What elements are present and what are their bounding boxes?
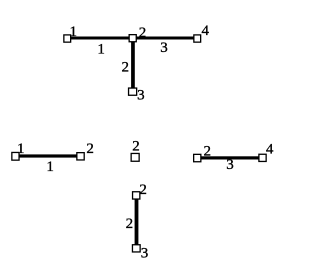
svg-text:2: 2 — [121, 60, 129, 76]
svg-text:2: 2 — [132, 138, 140, 154]
svg-text:3: 3 — [141, 245, 149, 261]
svg-text:4: 4 — [266, 142, 274, 158]
svg-text:1: 1 — [17, 141, 25, 157]
svg-text:1: 1 — [46, 159, 54, 175]
svg-text:3: 3 — [137, 87, 145, 103]
svg-text:2: 2 — [139, 25, 147, 41]
svg-text:2: 2 — [203, 143, 211, 159]
svg-text:2: 2 — [86, 141, 94, 157]
svg-text:2: 2 — [139, 182, 147, 198]
svg-text:3: 3 — [160, 40, 168, 56]
svg-text:1: 1 — [69, 24, 77, 40]
svg-text:4: 4 — [202, 23, 210, 39]
svg-text:2: 2 — [126, 216, 134, 232]
svg-text:3: 3 — [226, 157, 234, 173]
svg-text:1: 1 — [97, 42, 105, 58]
